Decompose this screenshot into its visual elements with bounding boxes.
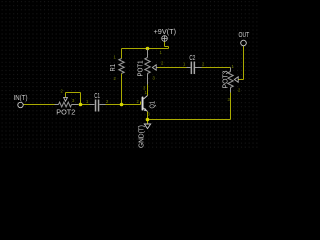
wire C2 to POT3 top	[202, 67, 231, 69]
wire R1 bottom to base node	[121, 74, 123, 105]
junction node rail/POT1	[146, 47, 150, 51]
wire POT1 wiper to C2	[158, 67, 187, 69]
wire POT3 wiper to OUT	[238, 46, 243, 80]
pin numbers (green)	[61, 50, 242, 117]
svg-text:R1: R1	[110, 64, 117, 72]
svg-text:POT2: POT2	[56, 110, 75, 117]
wire C1 to Q1 base	[106, 102, 141, 105]
svg-text:C2: C2	[189, 55, 195, 62]
svg-text:+9V(T): +9V(T)	[154, 29, 177, 36]
wire ground stub	[147, 120, 149, 125]
resistor R1 zigzag	[119, 59, 124, 74]
svg-text:GND(T): GND(T)	[139, 125, 146, 148]
wire emitter down	[147, 112, 149, 120]
wire emitter node to POT3 bottom	[148, 93, 231, 120]
wire POT2 wiper loop	[66, 93, 81, 105]
terminal +9V(T)	[162, 36, 168, 42]
junction node POT2 wiper	[79, 103, 83, 107]
potentiometer POT2 wiper arrow	[64, 97, 68, 101]
capacitor C2 plates	[191, 62, 196, 75]
potentiometer POT3 wiper arrow	[234, 77, 238, 82]
svg-text:POT1: POT1	[138, 60, 145, 76]
wire IN to POT2	[24, 104, 55, 106]
wires	[24, 42, 244, 125]
wire POT1 bottom to collector	[147, 85, 149, 96]
wire R1 top to rail	[121, 49, 123, 59]
svg-text:Q1: Q1	[150, 101, 157, 109]
ground symbol	[144, 124, 150, 129]
junction node base/R1	[120, 103, 124, 107]
potentiometer POT2 zigzag	[59, 102, 72, 107]
capacitor C1 plates	[95, 100, 100, 112]
terminal IN(T)	[18, 102, 23, 107]
potentiometer POT3 zigzag	[228, 72, 233, 88]
terminal OUT	[241, 40, 247, 46]
POT3 pins	[231, 68, 239, 93]
wire POT2 to C1	[82, 104, 90, 106]
svg-text:C1: C1	[94, 93, 100, 100]
junction node emitter/ground	[146, 118, 150, 122]
C1 pins	[90, 104, 106, 106]
potentiometer POT1 wiper arrow	[152, 65, 156, 70]
POT1 pins	[148, 49, 158, 85]
wire supply rail	[122, 42, 169, 49]
svg-text:POT3: POT3	[223, 70, 230, 88]
POT2 pins	[55, 104, 79, 106]
device pin stubs (grey)	[55, 49, 239, 105]
C2 pins	[187, 67, 202, 69]
potentiometer POT1 zigzag	[145, 58, 150, 74]
svg-text:OUT: OUT	[239, 32, 250, 39]
svg-text:IN(T): IN(T)	[14, 95, 28, 102]
transistor Q1	[142, 96, 148, 112]
